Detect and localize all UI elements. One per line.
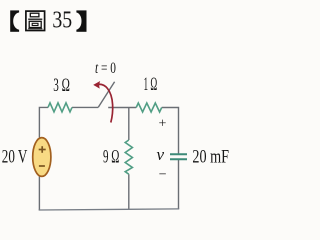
svg-text:v: v bbox=[157, 145, 165, 164]
svg-text:35: 35 bbox=[52, 7, 72, 34]
svg-text:3 Ω: 3 Ω bbox=[53, 75, 70, 96]
svg-text:20 mF: 20 mF bbox=[192, 146, 229, 167]
svg-text:20 V: 20 V bbox=[2, 146, 28, 167]
svg-text:t = 0: t = 0 bbox=[95, 60, 116, 77]
svg-text:+: + bbox=[159, 117, 167, 132]
svg-text:9 Ω: 9 Ω bbox=[103, 146, 119, 167]
svg-text:−: − bbox=[159, 168, 167, 183]
svg-text:1 Ω: 1 Ω bbox=[144, 74, 158, 95]
